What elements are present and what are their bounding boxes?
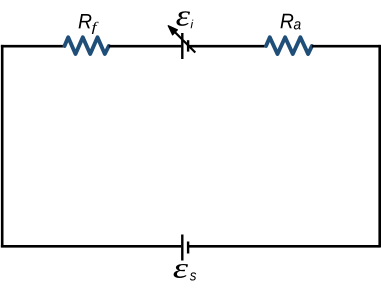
label Ra subscript "a" [294,21,301,29]
wire: top-left segment (left corner to Rf) [1,45,65,48]
resistor Rf [65,37,109,54]
wire: top-right segment (Ra to right corner) [312,45,380,48]
variable emf source: arrow shaft [172,29,195,52]
variable emf source: arrowhead [168,26,177,35]
label emf_i script-E [176,11,190,26]
wire: right vertical side [378,45,381,248]
label emf_s subscript "s" [190,272,196,280]
wire: bottom-right segment (battery Es to right corner) [189,245,380,248]
wire: top segment (variable source to Ra) [189,45,267,48]
variable emf source: short plate [187,40,189,51]
label Ra "R" [280,14,293,28]
label emf_i subscript "i" [191,20,194,29]
battery Es: long plate [181,235,183,261]
label Rf subscript "f" [92,22,99,34]
variable emf source: long plate [181,33,183,59]
label emf_s script-E [174,264,188,278]
battery Es: short plate [187,242,189,254]
wire: top segment (Rf to variable source) [109,45,181,48]
wire: left vertical side [1,45,4,248]
wire: bottom-left segment (left corner to battery Es) [1,245,181,248]
resistor Ra [266,37,312,54]
label Rf "R" [79,14,92,28]
